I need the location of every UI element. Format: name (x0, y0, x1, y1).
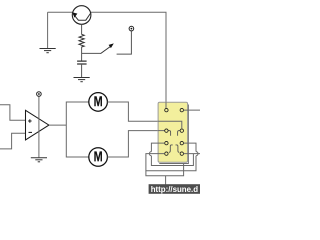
svg-text:http://sune.d: http://sune.d (151, 185, 199, 194)
